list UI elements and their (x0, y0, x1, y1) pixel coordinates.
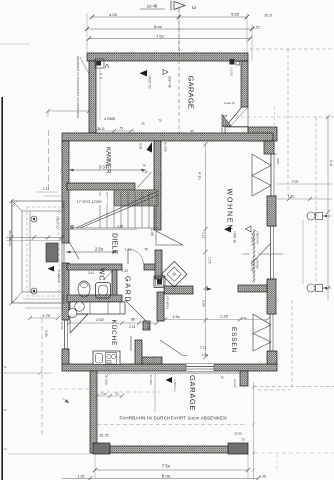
svg-text:2oo: 2oo (61, 148, 64, 153)
svg-text:2.25: 2.25 (117, 225, 123, 229)
svg-text:1oo 8o: 1oo 8o (233, 379, 237, 388)
svg-text:2 13: 2 13 (129, 325, 136, 329)
svg-text:+000-1o: +000-1o (173, 380, 177, 392)
svg-text:1 25: 1 25 (259, 475, 266, 479)
svg-text:88: 88 (131, 318, 135, 322)
svg-text:3 37: 3 37 (99, 165, 108, 170)
svg-text:8o 2o5o: 8o 2o5o (105, 375, 109, 386)
svg-text:4o 3o5o: 4o 3o5o (149, 375, 153, 386)
svg-text:1 32: 1 32 (122, 269, 128, 273)
svg-text:75: 75 (144, 248, 148, 252)
svg-text:1.11: 1.11 (200, 346, 206, 350)
svg-text:2.5o: 2.5o (95, 247, 104, 252)
svg-text:ω: ω (192, 5, 196, 11)
svg-text:1o2: 1o2 (61, 176, 64, 181)
svg-text:15 35: 15 35 (234, 432, 242, 436)
svg-text:2b,5: 2b,5 (264, 14, 271, 18)
svg-text:FAHRBAHN IN DURCHFAHRT 2ocm AB: FAHRBAHN IN DURCHFAHRT 2ocm ABSENKEN (120, 416, 227, 421)
svg-text:1o35 8o5: 1o35 8o5 (256, 258, 260, 269)
svg-text:13-28: 13-28 (230, 68, 234, 76)
svg-text:2 oo: 2 oo (292, 180, 299, 184)
svg-text:KF HERD: KF HERD (166, 296, 170, 309)
svg-text:3.91: 3.91 (139, 143, 143, 150)
svg-text:1.25: 1.25 (253, 26, 260, 30)
svg-text:7 6o: 7 6o (156, 34, 165, 39)
svg-text:75: 75 (119, 127, 123, 131)
svg-text:35 11 3o5: 35 11 3o5 (251, 260, 255, 272)
svg-text:25, 25: 25, 25 (100, 434, 109, 438)
svg-text:2.26: 2.26 (220, 315, 227, 319)
svg-text:36: 36 (190, 129, 194, 133)
svg-text:4.35: 4.35 (109, 12, 118, 17)
svg-text:2.49: 2.49 (150, 229, 154, 236)
svg-text:7a 4a 7a: 7a 4a 7a (224, 101, 235, 105)
svg-text:WC: WC (98, 268, 105, 281)
svg-text:1o 48: 1o 48 (147, 4, 158, 9)
svg-text:75: 75 (220, 376, 224, 380)
svg-text:76: 76 (142, 164, 146, 168)
svg-text:3513 4513a: 3513 4513a (8, 230, 12, 246)
svg-text:GARD: GARD (124, 276, 133, 303)
svg-text:75: 75 (158, 119, 162, 123)
svg-text:P-1002-B: P-1002-B (57, 270, 61, 283)
svg-text:4 1o: 4 1o (198, 172, 203, 181)
svg-text:+0017+46: +0017+46 (256, 231, 260, 244)
svg-text:2.62: 2.62 (96, 317, 105, 322)
svg-text:KÜCHE: KÜCHE (110, 320, 118, 347)
svg-text:6o 2535: 6o 2535 (164, 142, 168, 152)
svg-text:8o 2385 95: 8o 2385 95 (251, 233, 255, 247)
svg-text:9o 2oo: 9o 2oo (60, 322, 64, 330)
svg-text:WOHNEN: WOHNEN (226, 189, 233, 232)
svg-text:+0017-5o: +0017-5o (56, 216, 60, 229)
svg-text:1.75: 1.75 (42, 314, 49, 318)
svg-text:0.88: 0.88 (276, 158, 280, 164)
svg-text:3.93: 3.93 (44, 330, 48, 337)
svg-text:+0017-5o: +0017-5o (148, 75, 152, 89)
svg-text:+000-18: +000-18 (233, 231, 237, 243)
svg-text:2 o1: 2 o1 (88, 271, 94, 275)
svg-text:36: 36 (141, 122, 145, 126)
svg-text:1 35: 1 35 (78, 475, 85, 479)
svg-text:1.75: 1.75 (208, 257, 212, 264)
svg-text:8 oo: 8 oo (154, 24, 163, 29)
svg-text:3.33: 3.33 (202, 300, 206, 307)
svg-text:FAHRBAHN I.D. DURCHFAHRT 3cm A: FAHRBAHN I.D. DURCHFAHRT 3cm ABSENKEN (76, 56, 80, 118)
svg-text:0017-46: 0017-46 (168, 76, 172, 88)
svg-text:1 39: 1 39 (146, 323, 150, 329)
svg-text:GARAGE: GARAGE (187, 76, 196, 110)
svg-text:1.5o: 1.5o (172, 315, 179, 319)
svg-text:1.11: 1.11 (202, 232, 206, 238)
svg-text:225: 225 (223, 114, 228, 118)
svg-text:7.11: 7.11 (142, 170, 148, 174)
svg-text:4 2985: 4 2985 (104, 117, 115, 121)
svg-text:ESSEN: ESSEN (230, 327, 237, 353)
svg-text:7 5o: 7 5o (162, 464, 171, 469)
svg-text:1.5o: 1.5o (202, 353, 208, 357)
svg-text:17 STG 17/29: 17 STG 17/29 (77, 199, 103, 204)
svg-text:1.5o: 1.5o (288, 195, 295, 199)
svg-text:3 o1: 3 o1 (329, 160, 333, 166)
svg-text:25: 25 (241, 438, 245, 442)
svg-text:GARAGE: GARAGE (188, 375, 197, 411)
svg-text:5.35: 5.35 (231, 12, 240, 17)
svg-text:8 oo: 8 oo (162, 474, 171, 479)
